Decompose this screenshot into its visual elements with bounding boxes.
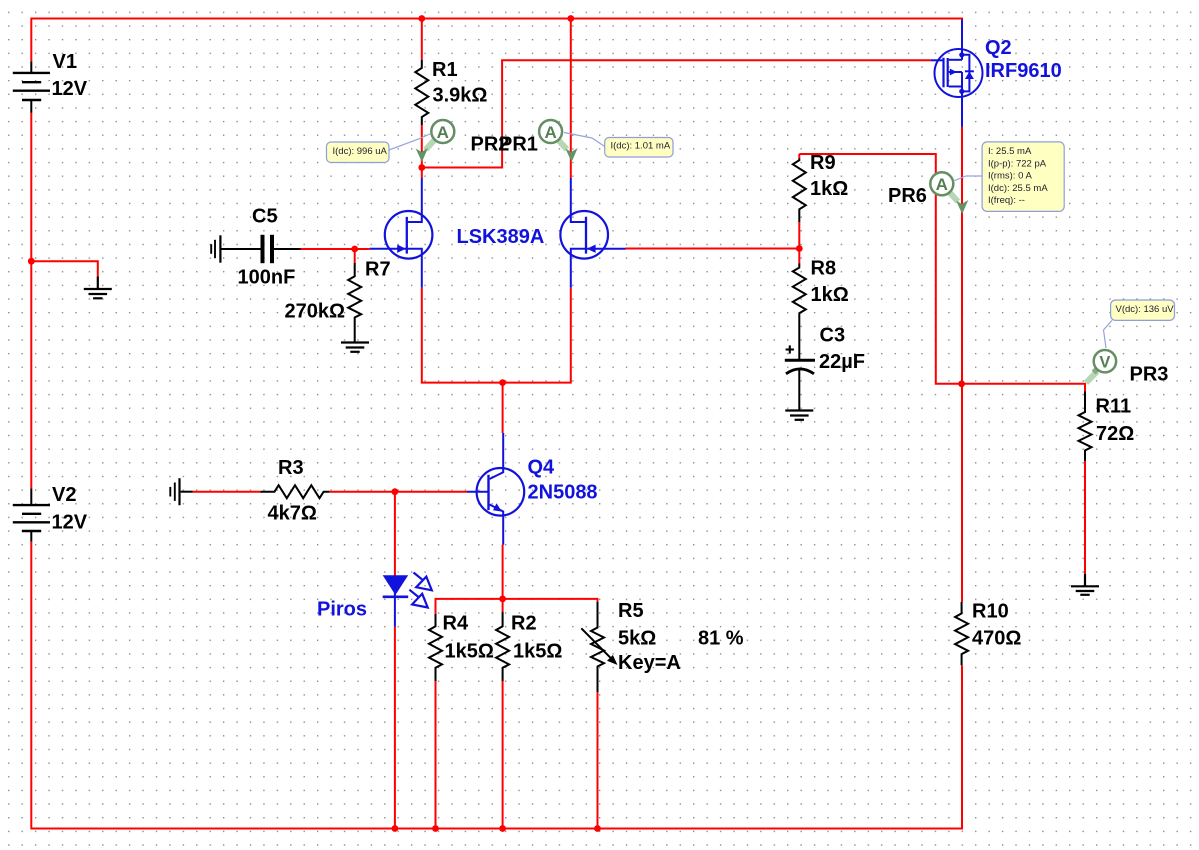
svg-text:V1: V1 xyxy=(53,51,77,73)
svg-text:PR1: PR1 xyxy=(499,134,538,156)
svg-text:Q4: Q4 xyxy=(528,457,556,479)
svg-text:2N5088: 2N5088 xyxy=(528,482,598,504)
svg-text:R11: R11 xyxy=(1096,396,1132,418)
svg-text:R9: R9 xyxy=(810,152,836,174)
svg-text:A: A xyxy=(936,175,948,194)
svg-text:R3: R3 xyxy=(278,457,304,479)
svg-text:I(p-p): 722 pA: I(p-p): 722 pA xyxy=(988,158,1047,169)
svg-text:470Ω: 470Ω xyxy=(972,628,1021,650)
svg-text:Piros: Piros xyxy=(317,599,367,621)
svg-text:1kΩ: 1kΩ xyxy=(810,178,848,200)
svg-text:PR6: PR6 xyxy=(888,185,927,207)
svg-text:R7: R7 xyxy=(365,259,391,281)
svg-text:R4: R4 xyxy=(443,613,469,635)
svg-text:I(dc): 996 uA: I(dc): 996 uA xyxy=(333,146,388,157)
svg-text:V2: V2 xyxy=(52,484,76,506)
svg-text:1k5Ω: 1k5Ω xyxy=(513,641,562,663)
svg-text:A: A xyxy=(437,123,449,142)
svg-text:12V: 12V xyxy=(52,512,88,534)
svg-text:R1: R1 xyxy=(432,59,458,81)
svg-text:1kΩ: 1kΩ xyxy=(811,284,849,306)
svg-text:A: A xyxy=(544,123,556,142)
svg-text:4k7Ω: 4k7Ω xyxy=(268,503,317,525)
svg-text:C3: C3 xyxy=(820,325,846,347)
svg-text:R2: R2 xyxy=(511,613,537,635)
svg-text:1k5Ω: 1k5Ω xyxy=(445,641,494,663)
svg-text:12V: 12V xyxy=(52,78,88,100)
svg-text:Q2: Q2 xyxy=(985,37,1012,59)
svg-text:LSK389A: LSK389A xyxy=(457,226,545,248)
svg-text:R8: R8 xyxy=(811,258,837,280)
svg-text:100nF: 100nF xyxy=(238,267,296,289)
svg-text:IRF9610: IRF9610 xyxy=(985,60,1062,82)
svg-text:I(rms): 0 A: I(rms): 0 A xyxy=(988,171,1032,182)
svg-text:I(dc): 1.01 mA: I(dc): 1.01 mA xyxy=(611,141,671,152)
svg-text:Key=A: Key=A xyxy=(618,652,681,674)
svg-text:I: 25.5 mA: I: 25.5 mA xyxy=(988,146,1032,157)
svg-text:V: V xyxy=(1099,353,1110,371)
svg-text:PR3: PR3 xyxy=(1130,364,1169,386)
svg-text:5kΩ: 5kΩ xyxy=(618,628,656,650)
svg-text:V(dc): 136 uV: V(dc): 136 uV xyxy=(1116,304,1175,315)
svg-text:81 %: 81 % xyxy=(698,628,744,650)
svg-text:I(dc): 25.5 mA: I(dc): 25.5 mA xyxy=(988,183,1048,194)
svg-text:R5: R5 xyxy=(618,600,644,622)
svg-text:3.9kΩ: 3.9kΩ xyxy=(433,85,488,107)
svg-text:22µF: 22µF xyxy=(819,351,865,373)
svg-text:270kΩ: 270kΩ xyxy=(285,301,346,323)
svg-text:R10: R10 xyxy=(972,601,1009,623)
svg-text:72Ω: 72Ω xyxy=(1096,423,1134,445)
svg-text:I(freq): --: I(freq): -- xyxy=(988,195,1025,206)
svg-text:C5: C5 xyxy=(252,206,278,228)
